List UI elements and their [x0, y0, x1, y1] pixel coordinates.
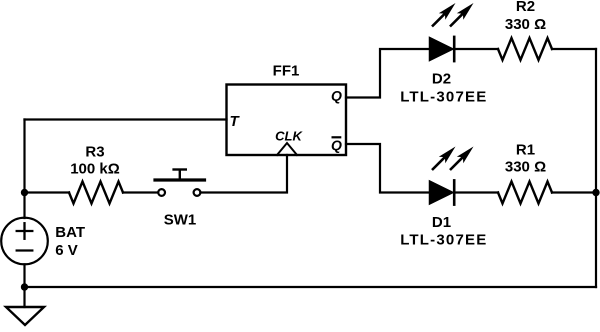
svg-text:LTL-307EE: LTL-307EE	[400, 231, 487, 248]
svg-text:SW1: SW1	[164, 212, 197, 229]
switch SW1 left contact	[158, 189, 165, 196]
svg-text:LTL-307EE: LTL-307EE	[400, 89, 487, 106]
wire: D2 cathode to R2	[454, 48, 498, 50]
wire: R2 to right rail (corner)	[552, 48, 596, 50]
svg-text:330 Ω: 330 Ω	[505, 16, 546, 33]
wire: Qbar output to LED D1 anode	[346, 144, 430, 193]
wire: R3 to SW1 left contact	[123, 191, 158, 193]
wire: bottom ground rail	[25, 286, 597, 288]
node: junction battery-/bottom rail	[21, 283, 28, 290]
resistor R1	[498, 182, 552, 204]
svg-text:Q: Q	[331, 87, 342, 103]
wire: R1 to right rail	[552, 191, 596, 193]
switch SW1 right contact	[194, 189, 201, 196]
wire: SW1 right contact to CLK pin (corner)	[200, 155, 287, 193]
flip-flop FF1 box	[227, 85, 347, 156]
svg-text:D2: D2	[432, 71, 451, 88]
LED D2 triangle (anode)	[430, 37, 454, 60]
svg-text:R3: R3	[85, 144, 104, 161]
battery + sign	[17, 223, 33, 239]
LED D1 light arrow 1	[432, 156, 446, 170]
svg-text:6 V: 6 V	[55, 242, 78, 259]
node: junction R1 / right rail	[592, 189, 599, 196]
wire: D1 cathode to R1	[454, 191, 498, 193]
svg-text:BAT: BAT	[55, 224, 85, 241]
svg-text:CLK: CLK	[275, 128, 303, 143]
battery BAT (voltage source circle)	[1, 218, 48, 265]
CLK edge-trigger triangle	[277, 143, 297, 155]
svg-text:100 kΩ: 100 kΩ	[70, 161, 120, 178]
resistor R2	[498, 38, 552, 60]
switch SW1 bar	[155, 178, 205, 181]
LED D2 cathode bar	[453, 36, 456, 63]
svg-text:D1: D1	[432, 214, 451, 231]
switch SW1 actuator stem	[179, 170, 181, 180]
pin Qbar overline	[332, 136, 342, 138]
svg-text:Q: Q	[331, 137, 342, 153]
node: junction left rail / R3 branch	[21, 189, 28, 196]
LED D1 light arrow 2	[450, 156, 464, 170]
svg-text:FF1: FF1	[273, 63, 300, 80]
ground symbol	[6, 307, 44, 325]
wire: battery - terminal to ground	[23, 264, 25, 307]
svg-text:R2: R2	[516, 0, 535, 15]
resistor R3	[69, 182, 123, 204]
LED D1 cathode bar	[453, 179, 456, 206]
wire: left rail to R3	[25, 191, 70, 193]
switch SW1 actuator cap	[174, 168, 186, 170]
LED D2 light arrow 1	[432, 13, 446, 27]
LED D1 triangle (anode)	[430, 181, 454, 204]
wire: right rail vertical	[595, 49, 597, 287]
svg-text:330 Ω: 330 Ω	[505, 159, 546, 176]
wire: T input row from left rail to FF1	[25, 118, 227, 120]
svg-text:R1: R1	[516, 142, 535, 159]
wire: left rail vertical from T row to battery + terminal	[23, 120, 25, 219]
LED D2 light arrow 2	[450, 13, 464, 27]
battery - sign	[17, 249, 33, 251]
wire: Q output to LED D2 anode	[346, 49, 430, 98]
